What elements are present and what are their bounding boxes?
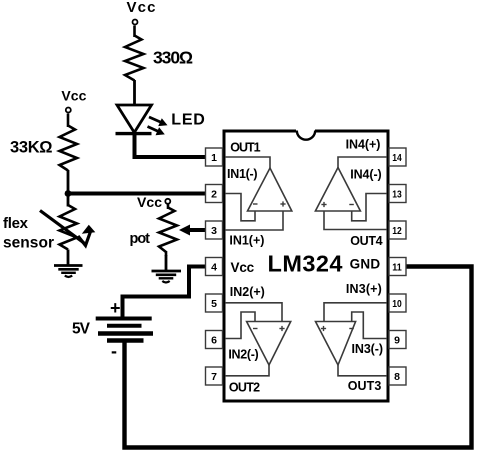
pin 4 box	[206, 258, 223, 276]
op-amp U4	[315, 168, 360, 212]
wire pin5 to U2 non-inverting input	[225, 303, 282, 322]
svg-text:IN3(-): IN3(-)	[352, 342, 384, 356]
battery 5V	[96, 298, 153, 361]
svg-text:IN4(-): IN4(-)	[350, 168, 382, 182]
wire pin12 to U4 non-inverting input	[324, 211, 387, 230]
op-amp U2	[247, 322, 291, 366]
pin 3 box	[206, 221, 223, 239]
svg-text:3: 3	[211, 225, 217, 237]
svg-text:1: 1	[211, 152, 217, 164]
svg-text:5: 5	[211, 298, 217, 310]
pin 10 box	[389, 294, 406, 312]
wire LED to pin 1	[135, 134, 206, 157]
resistor 330ohm	[125, 36, 144, 81]
wire pin13 to U4 inverting input	[352, 194, 387, 221]
potentiometer	[159, 205, 177, 257]
svg-text:33KΩ: 33KΩ	[10, 139, 53, 157]
svg-text:2: 2	[211, 189, 217, 201]
svg-text:5V: 5V	[72, 320, 91, 337]
op-amp U3	[316, 322, 356, 366]
svg-text:7: 7	[211, 371, 217, 383]
wire pin10 to U3 non-inverting input	[324, 303, 387, 322]
svg-text:-: -	[111, 341, 117, 361]
pin 7 box	[206, 367, 223, 385]
pin 2 box	[206, 185, 223, 203]
svg-text:OUT3: OUT3	[348, 379, 382, 393]
svg-text:IN4(+): IN4(+)	[346, 138, 381, 152]
node junction dot	[65, 190, 72, 197]
wire pot to ground	[165, 255, 168, 271]
svg-text:6: 6	[211, 335, 217, 347]
pin 13 box	[389, 185, 406, 203]
svg-text:9: 9	[394, 335, 400, 347]
svg-text:OUT1: OUT1	[230, 140, 260, 154]
svg-text:Vcc: Vcc	[137, 194, 162, 210]
svg-text:+: +	[110, 298, 121, 318]
IC LM324 body	[224, 131, 388, 401]
pin 1 box	[206, 148, 223, 166]
Vcc terminal (33K branch)	[61, 87, 86, 112]
wire pin2 to U1 inverting input	[225, 194, 255, 221]
svg-text:IN2(+): IN2(+)	[230, 285, 265, 299]
wire R330 to LED	[133, 80, 136, 105]
pin 14 box	[389, 148, 406, 166]
ground (pot)	[152, 271, 182, 283]
wire R33K to node	[67, 170, 70, 194]
svg-text:IN1(-): IN1(-)	[227, 167, 258, 181]
wire pin9 to U3 inverting input	[352, 312, 387, 339]
svg-text:OUT4: OUT4	[350, 234, 382, 248]
pin 11 box	[389, 258, 406, 276]
svg-text:10: 10	[392, 298, 402, 310]
svg-text:IN3(+): IN3(+)	[346, 282, 382, 296]
LED D1	[116, 105, 168, 135]
op-amp U1	[248, 168, 292, 211]
wire pin14 to op-amp U4	[338, 157, 387, 168]
wire Vcc to R 330	[133, 26, 136, 38]
svg-text:8: 8	[394, 371, 400, 383]
svg-text:12: 12	[392, 225, 402, 237]
notch	[296, 129, 315, 140]
pin 8 box	[389, 367, 406, 385]
wire pin8 to U3 output	[338, 365, 387, 376]
svg-text:Vcc: Vcc	[61, 87, 86, 103]
svg-text:GND: GND	[350, 257, 381, 272]
svg-text:sensor: sensor	[3, 235, 54, 252]
svg-text:330Ω: 330Ω	[153, 47, 193, 67]
svg-text:pot: pot	[130, 231, 151, 247]
resistor 33K	[60, 126, 78, 171]
svg-text:11: 11	[392, 262, 402, 274]
wire flex to ground	[67, 250, 70, 266]
svg-text:IN2(-): IN2(-)	[228, 348, 258, 362]
svg-text:Vcc: Vcc	[127, 0, 156, 16]
svg-text:LM324: LM324	[268, 251, 343, 277]
wire pin7 to U2 output	[225, 365, 269, 376]
svg-text:LED: LED	[171, 112, 205, 129]
svg-text:IN1(+): IN1(+)	[229, 234, 264, 248]
Vcc terminal (pot branch)	[137, 194, 170, 210]
wire pot wiper to pin 3 (arrow)	[179, 225, 206, 236]
wire pin6 to U2 inverting input	[225, 312, 255, 339]
wire Vcc to R 33K	[67, 114, 70, 128]
svg-text:Vcc: Vcc	[231, 260, 255, 275]
pin 6 box	[206, 331, 223, 349]
pin 12 box	[389, 221, 406, 239]
svg-text:OUT2: OUT2	[229, 381, 260, 395]
pin 5 box	[206, 294, 223, 312]
wire pin 4 to battery +	[123, 267, 206, 318]
ground (flex sensor)	[54, 266, 83, 278]
flex sensor	[40, 194, 95, 250]
Vcc terminal (330 ohm branch)	[127, 0, 156, 25]
wire pin1 to op-amp U1 output	[225, 157, 270, 168]
svg-text:4: 4	[211, 262, 217, 274]
wire node to pin 2	[68, 192, 206, 196]
pin 9 box	[389, 331, 406, 349]
wire battery - to pin 11 (bottom loop)	[125, 267, 472, 448]
svg-text:14: 14	[392, 152, 402, 164]
svg-text:13: 13	[392, 189, 402, 201]
svg-text:flex: flex	[3, 215, 29, 232]
wire pin3 to U1 non-inverting input	[225, 211, 283, 230]
